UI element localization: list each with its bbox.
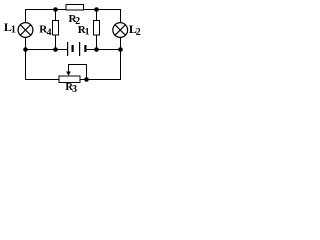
battery cell 1 short plate xyxy=(72,45,74,52)
svg-text:4: 4 xyxy=(47,28,52,38)
resistor R2 (horizontal, top) xyxy=(66,5,84,11)
resistor R4 (vertical) xyxy=(52,21,58,36)
svg-text:3: 3 xyxy=(72,84,77,95)
battery cell 1 long plate xyxy=(67,42,68,56)
rheostat R3 body xyxy=(59,76,80,83)
resistor R1 (vertical) xyxy=(93,21,99,36)
battery cell 2 long plate xyxy=(79,42,80,56)
lamp L1 xyxy=(18,23,33,38)
wire top horizontal xyxy=(25,9,121,11)
wire R4 branch top lead xyxy=(55,9,57,21)
wire R4 branch bottom lead xyxy=(55,35,57,49)
wire wiper horizontal xyxy=(68,64,87,66)
wire right rail upper xyxy=(120,9,122,23)
wire wiper down segment xyxy=(86,64,88,80)
junction dot R3 wiper bottom xyxy=(84,77,89,82)
junction dot R1 bottom xyxy=(94,47,99,52)
wire R1 branch bottom lead xyxy=(96,35,98,49)
junction dot L2 bottom xyxy=(118,47,123,52)
junction dot R4 top xyxy=(53,7,58,12)
junction dot R1 top xyxy=(94,7,99,12)
wire left rail between lamp and middle xyxy=(25,37,27,49)
wire left rail upper xyxy=(25,9,27,23)
wire middle right of battery xyxy=(86,49,121,51)
rheostat R3 wiper arrowhead xyxy=(66,72,71,76)
wire middle left of battery xyxy=(25,49,67,51)
svg-text:1: 1 xyxy=(11,25,16,36)
wire R1 branch top lead xyxy=(96,9,98,21)
rheostat R3 wiper stem xyxy=(68,65,70,73)
junction dot L1 bottom xyxy=(23,47,28,52)
wire right rail lower xyxy=(120,49,122,80)
lamp L2 xyxy=(113,23,128,38)
wire left rail lower xyxy=(25,49,27,80)
wire bottom horizontal xyxy=(25,79,121,81)
battery cell 2 short plate xyxy=(84,45,86,52)
svg-text:1: 1 xyxy=(85,28,90,38)
svg-text:2: 2 xyxy=(136,27,141,38)
background xyxy=(0,0,149,96)
junction dot R4 bottom xyxy=(53,47,58,52)
wire right rail between lamp and middle xyxy=(120,37,122,49)
